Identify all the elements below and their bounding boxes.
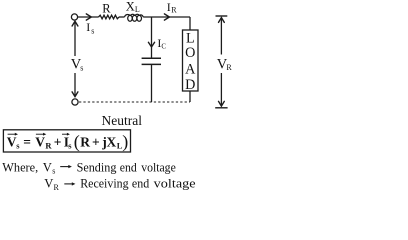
svg-text:Receiving: Receiving [80,177,129,191]
svg-text:Sending: Sending [77,160,117,174]
svg-text:V: V [44,177,53,191]
svg-text:I: I [86,20,90,34]
svg-text:+: + [54,134,62,149]
svg-text:I: I [167,0,171,14]
svg-text:R: R [54,183,60,191]
svg-text:(: ( [74,131,80,152]
svg-text:s: s [91,27,94,36]
svg-text:X: X [107,134,117,149]
svg-text:L: L [135,5,140,14]
svg-text:O: O [185,45,195,61]
svg-text:C: C [161,42,166,50]
svg-text:R: R [171,6,177,15]
svg-text:s: s [52,167,55,176]
svg-text:R: R [80,134,90,149]
svg-text:s: s [68,141,72,151]
svg-text:R: R [226,63,232,72]
svg-text:=: = [23,134,31,149]
svg-text:Neutral: Neutral [102,113,143,128]
svg-text:+: + [92,134,100,149]
svg-text:X: X [126,0,135,14]
svg-text:voltage: voltage [154,177,196,191]
svg-text:R: R [102,2,111,16]
svg-text:A: A [185,62,196,78]
svg-text:end: end [132,177,150,191]
svg-text:R: R [45,141,52,151]
svg-text:end: end [120,160,138,174]
svg-text:D: D [185,77,195,93]
svg-text:Where,: Where, [2,160,38,174]
svg-text:V: V [35,134,45,149]
svg-text:s: s [80,64,83,73]
svg-text:voltage: voltage [141,160,176,174]
svg-text:V: V [43,160,52,174]
svg-text:): ) [122,131,128,152]
svg-text:s: s [16,141,20,151]
